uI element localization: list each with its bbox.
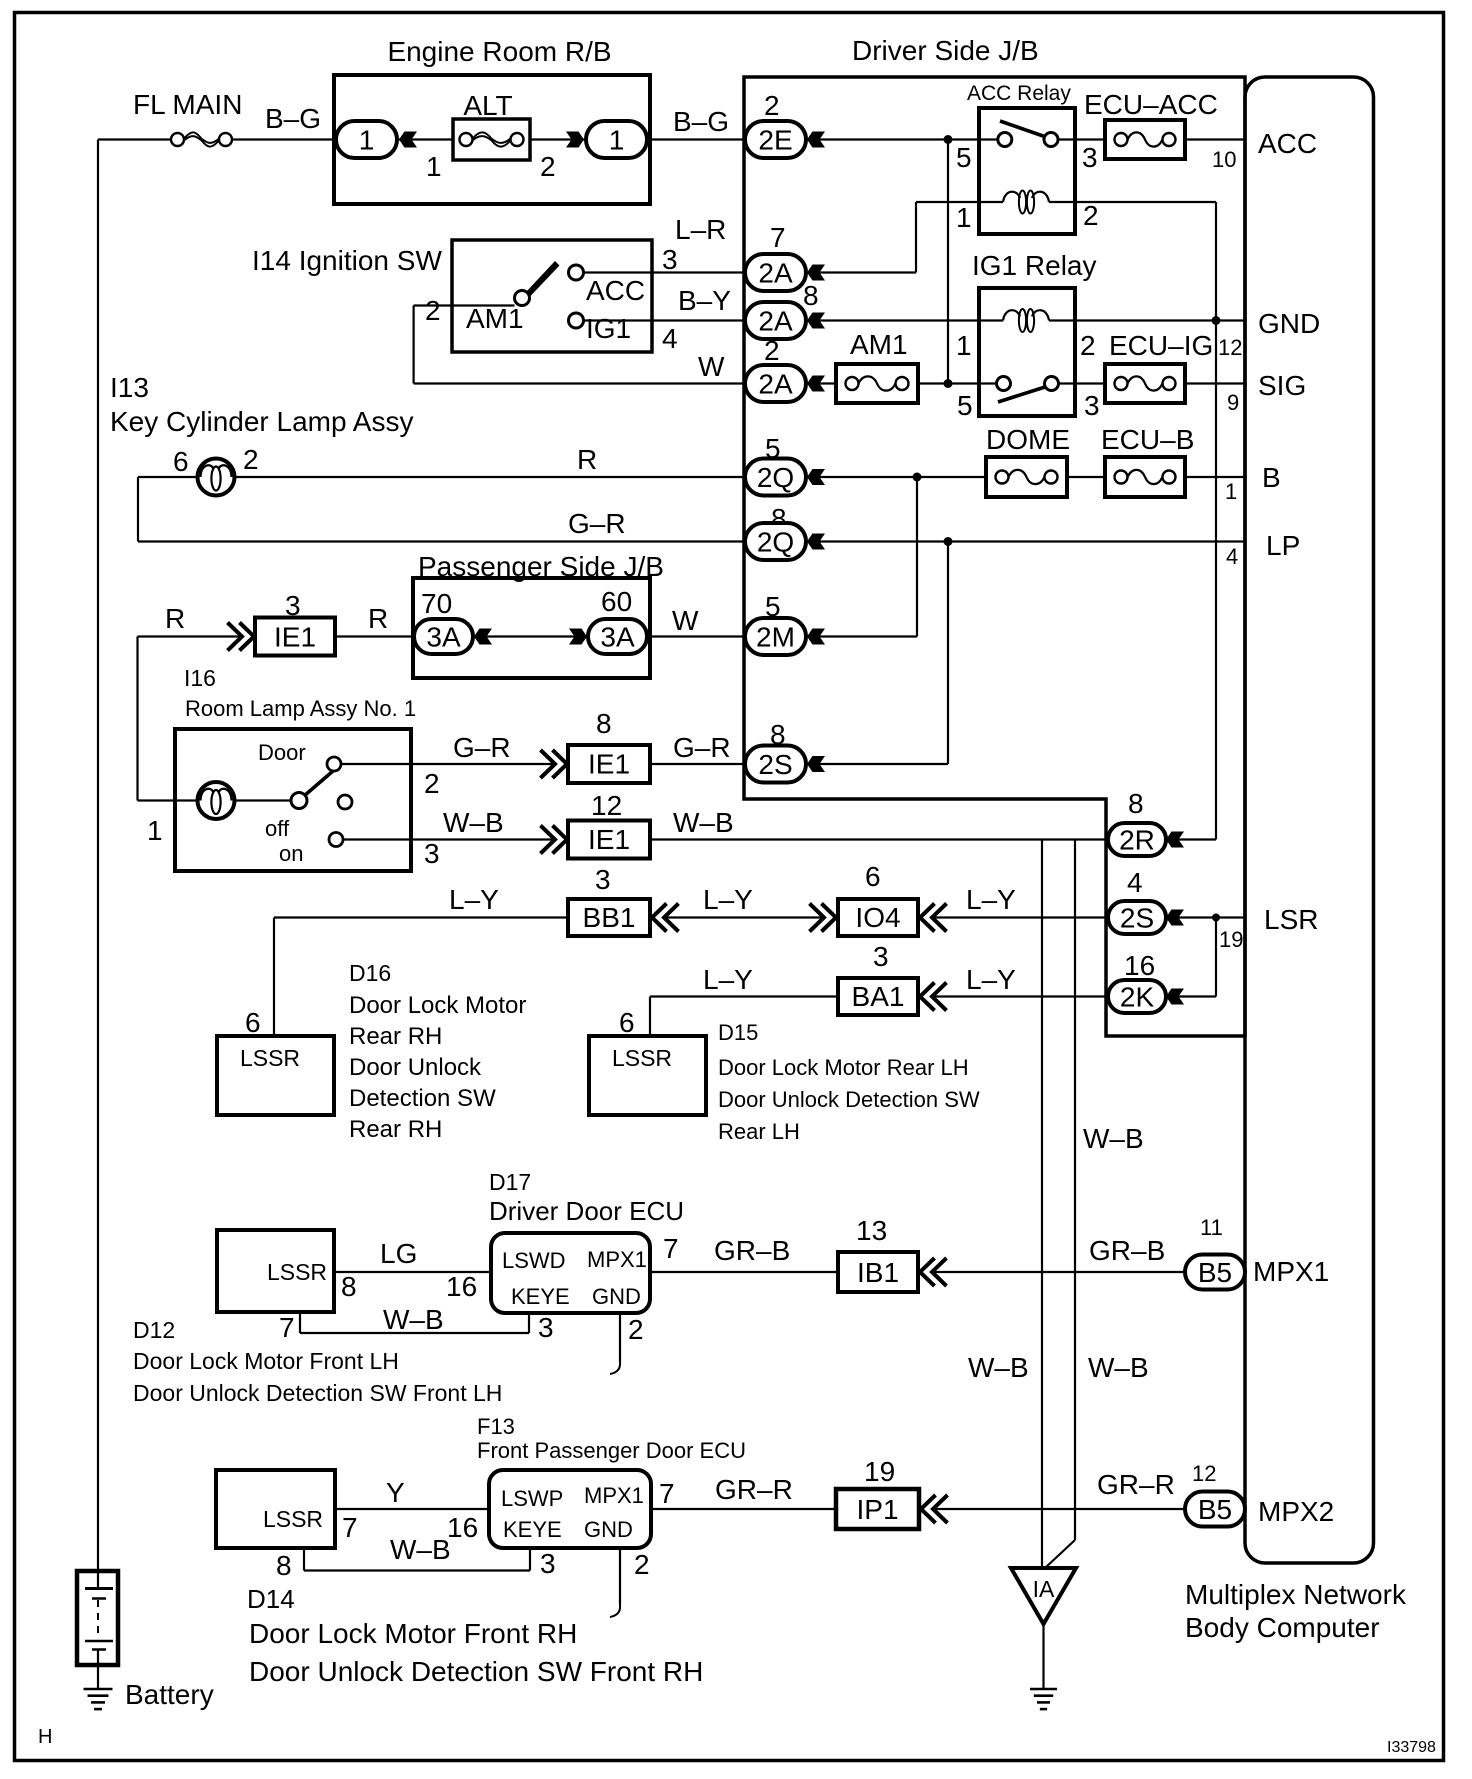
wire L-Y LSSR D16 to BB1 — [274, 918, 568, 1037]
svg-text:B: B — [1262, 462, 1281, 493]
wire door contact to pin2 — [341, 763, 411, 765]
svg-text:2M: 2M — [756, 622, 795, 653]
wire R key lamp to 2Q5 — [235, 476, 747, 478]
svg-text:Door Unlock: Door Unlock — [349, 1054, 482, 1081]
label D12 — [133, 1317, 175, 1343]
LSSR D16 box — [217, 1036, 334, 1115]
connector oval 2A pin7 — [745, 254, 806, 291]
wire IG1 contact to 2A pin8 — [584, 319, 747, 321]
label W-B D14 — [390, 1534, 451, 1565]
pin 3 label KEYE — [538, 1312, 554, 1343]
junction node on 2E wire — [944, 135, 953, 144]
connector oval 2S right column — [1108, 901, 1166, 934]
connector IE1 pin8 — [568, 745, 650, 783]
label Door Lock Motor Front LH — [133, 1348, 399, 1374]
label R wire left — [165, 603, 185, 634]
pin 2 label key lamp — [243, 444, 259, 475]
pin 7 label above 2A — [770, 222, 786, 253]
chevron out of IB1 — [920, 1258, 947, 1286]
connector IB1 — [838, 1252, 918, 1292]
label L-Y 5 — [966, 964, 1016, 995]
pin 10 label — [1212, 147, 1236, 172]
chevron out of BB1 — [652, 904, 679, 932]
svg-text:7: 7 — [342, 1512, 358, 1543]
svg-text:I33798: I33798 — [1387, 1739, 1436, 1756]
label D16 — [349, 960, 391, 986]
label B-G (right) — [673, 106, 729, 137]
svg-text:LSR: LSR — [1264, 904, 1318, 935]
svg-text:Rear LH: Rear LH — [718, 1119, 800, 1144]
passenger side J/B box — [413, 578, 650, 678]
svg-text:6: 6 — [245, 1007, 261, 1038]
svg-text:GR–B: GR–B — [1089, 1235, 1165, 1266]
svg-text:1: 1 — [359, 125, 375, 156]
wire IG1 relay to ECU-IG fuse — [1075, 382, 1105, 384]
svg-text:G–R: G–R — [673, 732, 731, 763]
svg-text:LP: LP — [1266, 530, 1300, 561]
connector oval 2A pin8 — [745, 302, 806, 339]
label D15 — [718, 1020, 758, 1045]
svg-text:KEYE: KEYE — [511, 1284, 570, 1309]
wire IE1 pin8 to 2S — [650, 763, 746, 765]
label Door — [258, 740, 306, 765]
svg-text:L–Y: L–Y — [966, 884, 1016, 915]
wire lamp pin1 — [138, 799, 198, 801]
LSSR D14 box — [216, 1470, 335, 1548]
connector IO4 — [838, 899, 918, 936]
pin 2 label GND D17 — [628, 1314, 644, 1345]
wire IB1 to B5 — [932, 1271, 1185, 1273]
svg-text:GR–B: GR–B — [714, 1235, 790, 1266]
label I33798 — [1387, 1739, 1436, 1756]
svg-text:LSWD: LSWD — [502, 1248, 566, 1273]
pin 3 label above BA1 — [873, 941, 889, 972]
svg-text:3: 3 — [540, 1548, 556, 1579]
svg-text:G–R: G–R — [568, 508, 626, 539]
label DOME — [986, 424, 1070, 455]
svg-text:B5: B5 — [1198, 1257, 1232, 1288]
wire junction down to 2S — [818, 542, 948, 765]
svg-text:2: 2 — [1083, 200, 1099, 231]
svg-text:DOME: DOME — [986, 424, 1070, 455]
svg-text:Door Lock Motor Front LH: Door Lock Motor Front LH — [133, 1348, 399, 1374]
junction node LSR — [1212, 914, 1220, 922]
svg-text:LSWP: LSWP — [501, 1486, 563, 1511]
svg-text:D17: D17 — [489, 1169, 531, 1195]
svg-text:1: 1 — [1225, 479, 1237, 504]
LSSR D15 box — [589, 1036, 706, 1115]
pin 5 label above 2M — [765, 591, 781, 622]
connector BB1 — [568, 899, 650, 936]
label Door Unlock Detection SW Front LH — [133, 1380, 502, 1406]
wire 2E to ACC relay pin5 — [818, 138, 979, 140]
svg-text:D15: D15 — [718, 1020, 758, 1045]
wire W-B LSSR D12 to KEYE — [300, 1312, 529, 1333]
label W-B D12 — [383, 1304, 444, 1335]
svg-text:W–B: W–B — [1083, 1123, 1144, 1154]
pin 2 label ALT — [540, 151, 556, 182]
label MPX2 pin — [1258, 1496, 1334, 1527]
svg-text:B–G: B–G — [265, 103, 321, 134]
svg-text:IE1: IE1 — [588, 824, 630, 855]
svg-text:Door: Door — [258, 740, 306, 765]
front passenger door ECU box — [489, 1470, 651, 1548]
svg-text:9: 9 — [1227, 390, 1239, 415]
label H — [38, 1726, 52, 1748]
label W-B bus right — [1088, 1352, 1149, 1383]
pin 3 label IG1 relay — [1084, 390, 1100, 421]
label IG1 terminal — [586, 313, 631, 344]
ACC relay switch — [979, 121, 1075, 147]
wire GR-B ECU to IB1 — [650, 1271, 838, 1273]
connector oval 2A pin2 — [745, 365, 806, 402]
label I13 — [110, 372, 149, 403]
svg-text:2: 2 — [634, 1549, 650, 1580]
svg-text:Driver Side J/B: Driver Side J/B — [852, 35, 1039, 66]
label MPX1 F13 — [584, 1483, 644, 1508]
label GND F13 — [584, 1517, 633, 1542]
pin 1 label ACC relay — [956, 202, 972, 233]
wire ALT to oval 1 right — [530, 138, 586, 140]
wire W 3A60 to 2M — [647, 635, 746, 637]
label G-R right — [673, 732, 731, 763]
svg-text:Key Cylinder Lamp Assy: Key Cylinder Lamp Assy — [110, 406, 413, 437]
wire LSR pin to 2S — [1178, 916, 1245, 918]
label B-Y — [678, 285, 731, 316]
label KEYE F13 — [503, 1517, 562, 1542]
wire ECU-B to B pin — [1185, 476, 1245, 478]
pin 6 label LSSR D16 — [245, 1007, 261, 1038]
svg-text:5: 5 — [957, 390, 973, 421]
svg-text:GR–R: GR–R — [715, 1474, 793, 1505]
wire IE1 to 3A70 — [335, 635, 414, 637]
label off — [265, 816, 290, 841]
svg-text:2R: 2R — [1119, 825, 1155, 856]
arrow into 2A pin7 — [807, 265, 825, 281]
wire Y LSSR to ECU — [335, 1508, 489, 1510]
label Door Lock Motor — [349, 992, 526, 1019]
label Passenger Side J/B — [418, 551, 664, 582]
label ECU-B — [1101, 424, 1194, 455]
svg-text:19: 19 — [1219, 927, 1243, 952]
svg-text:F13: F13 — [477, 1414, 515, 1439]
svg-text:G–R: G–R — [453, 732, 511, 763]
label W-B right — [673, 807, 734, 838]
label LG — [380, 1238, 417, 1269]
label W wire — [672, 605, 699, 636]
IG1 relay box — [979, 288, 1075, 416]
LSSR D12 box — [217, 1230, 334, 1312]
svg-text:Detection SW: Detection SW — [349, 1085, 496, 1112]
label ECU-ACC — [1084, 89, 1218, 120]
pin 5 label above 2Q — [765, 433, 781, 464]
svg-text:2: 2 — [628, 1314, 644, 1345]
svg-text:7: 7 — [770, 222, 786, 253]
label ACC Relay — [967, 82, 1071, 105]
connector BA1 — [838, 978, 918, 1015]
connector oval 3A pin70 — [414, 619, 473, 654]
label R wire — [577, 444, 597, 475]
pin 2 label above 2E — [764, 90, 780, 121]
pin 6 label key lamp — [173, 446, 189, 477]
label Y — [386, 1477, 405, 1508]
svg-text:Body Computer: Body Computer — [1185, 1612, 1380, 1643]
svg-text:GND: GND — [592, 1284, 641, 1309]
wire G-R room lamp to IE1 pin8 — [411, 763, 555, 765]
svg-text:6: 6 — [865, 861, 881, 892]
svg-text:ECU–ACC: ECU–ACC — [1084, 89, 1218, 120]
battery — [77, 1571, 118, 1689]
svg-text:AM1: AM1 — [850, 329, 908, 360]
svg-text:AM1: AM1 — [466, 303, 524, 334]
svg-text:L–Y: L–Y — [703, 964, 753, 995]
label Driver Side J/B — [852, 35, 1039, 66]
chevron into IE1 pin3 — [228, 623, 255, 651]
svg-text:3: 3 — [873, 941, 889, 972]
multiplex network body computer box — [1245, 77, 1374, 1563]
IG1 relay coil — [1003, 309, 1049, 332]
arrow into 2E — [807, 132, 825, 148]
label LP pin — [1266, 530, 1300, 561]
svg-text:IO4: IO4 — [855, 902, 900, 933]
junction node GND net — [1212, 316, 1221, 325]
IG1 relay switch — [979, 377, 1075, 403]
wire IG1 coil pin2 to GND pin — [1049, 319, 1245, 321]
pin 16 label above 2K — [1124, 950, 1155, 981]
label on — [279, 841, 303, 866]
svg-text:2: 2 — [424, 768, 440, 799]
label L-R — [675, 214, 726, 245]
arrow into 2S right column — [1166, 910, 1184, 926]
chevron into IO4 — [810, 904, 837, 932]
amplifier IA — [1011, 1568, 1076, 1624]
wire oval1 to ALT — [397, 138, 453, 140]
label B pin — [1262, 462, 1281, 493]
label Engine Room R/B — [387, 36, 611, 67]
pin 4 label — [1226, 544, 1238, 569]
svg-text:ACC: ACC — [1258, 128, 1317, 159]
arrow into 2Q pin8 — [807, 534, 825, 550]
svg-text:3: 3 — [662, 244, 678, 275]
svg-text:12: 12 — [1218, 335, 1242, 360]
connector oval 2Q pin5 — [745, 459, 806, 496]
wire DOME to ECU-B — [1067, 476, 1105, 478]
svg-text:Y: Y — [386, 1477, 405, 1508]
svg-text:Door Lock Motor Front RH: Door Lock Motor Front RH — [249, 1618, 577, 1649]
svg-text:LSSR: LSSR — [612, 1045, 672, 1071]
pin 19 label above IP1 — [864, 1456, 895, 1487]
svg-text:LSSR: LSSR — [240, 1045, 300, 1071]
svg-text:W: W — [698, 351, 725, 382]
svg-text:Door Lock Motor: Door Lock Motor — [349, 992, 526, 1019]
wire IA to ground — [1042, 1624, 1044, 1689]
pin 1 label ALT — [426, 151, 442, 182]
svg-text:16: 16 — [447, 1512, 478, 1543]
svg-text:Room Lamp Assy No. 1: Room Lamp Assy No. 1 — [185, 696, 416, 721]
wire battery feed vertical — [97, 140, 99, 1572]
pin 8 label LSSR D12 — [341, 1271, 357, 1302]
svg-text:1: 1 — [956, 330, 972, 361]
arrow into 2K — [1166, 989, 1184, 1005]
pin 2 label ACC relay — [1083, 200, 1099, 231]
svg-text:11: 11 — [1200, 1215, 1223, 1240]
pin 12 label above B5 MPX2 — [1192, 1461, 1216, 1486]
wire junction to SIG junction vertical — [947, 140, 949, 384]
svg-text:W–B: W–B — [1088, 1352, 1149, 1383]
ignition switch lever — [526, 261, 560, 297]
label I16 — [184, 665, 216, 691]
svg-text:7: 7 — [659, 1478, 675, 1509]
arrow into 3A70 — [474, 629, 492, 645]
fuse ECU-IG — [1105, 364, 1185, 403]
svg-text:D12: D12 — [133, 1317, 175, 1343]
pin 2 label room lamp — [424, 768, 440, 799]
label Rear RH 2 — [349, 1116, 442, 1143]
pin 12 label — [1218, 335, 1242, 360]
wire riser to 2M — [916, 477, 918, 637]
svg-text:2: 2 — [1080, 330, 1096, 361]
connector oval B5 MPX1 — [1185, 1255, 1245, 1290]
wire ACC coil pin2 to GND net — [1075, 202, 1216, 840]
svg-text:16: 16 — [1124, 950, 1155, 981]
label GR-B right — [1089, 1235, 1165, 1266]
svg-text:Engine Room R/B: Engine Room R/B — [387, 36, 611, 67]
wire GND pin D17 — [610, 1313, 620, 1374]
svg-text:1: 1 — [426, 151, 442, 182]
pin 2 label ignition — [425, 295, 441, 326]
svg-text:L–R: L–R — [675, 214, 726, 245]
svg-text:2A: 2A — [758, 369, 793, 400]
wire W-B LSSR D14 to KEYE — [304, 1548, 530, 1571]
svg-text:12: 12 — [1192, 1461, 1216, 1486]
key cylinder lamp bulb — [198, 459, 235, 496]
label L-Y 1 — [449, 884, 499, 915]
wire key lamp pin6 loop — [138, 477, 746, 542]
svg-text:19: 19 — [864, 1456, 895, 1487]
connector oval 2Q pin8 — [745, 523, 806, 560]
connector oval 2S — [745, 746, 806, 783]
svg-text:2Q: 2Q — [757, 527, 794, 558]
label AM1 fuse — [850, 329, 908, 360]
label MPX1 pin — [1253, 1256, 1329, 1287]
svg-text:R: R — [165, 603, 185, 634]
ignition switch common contact — [515, 291, 530, 306]
svg-text:6: 6 — [173, 446, 189, 477]
wire riser to 2A pin7 wire — [915, 202, 917, 273]
label W — [698, 351, 725, 382]
svg-text:W–B: W–B — [383, 1304, 444, 1335]
room lamp box — [175, 729, 411, 871]
svg-text:IB1: IB1 — [857, 1257, 899, 1288]
wire ignition AM1 to W wire — [414, 306, 515, 384]
pin 3 label ignition — [662, 244, 678, 275]
connector IE1 pin12 — [568, 821, 650, 859]
label W-B bus upper — [1083, 1123, 1144, 1154]
svg-text:SIG: SIG — [1258, 370, 1306, 401]
connector oval 2K — [1108, 980, 1166, 1013]
svg-text:3: 3 — [595, 864, 611, 895]
room lamp switch lever — [304, 768, 337, 797]
svg-text:ECU–B: ECU–B — [1101, 424, 1194, 455]
wire 2A pin7 to ACC coil riser — [818, 271, 916, 273]
svg-text:2A: 2A — [758, 306, 793, 337]
svg-text:8: 8 — [276, 1550, 292, 1581]
arrow into 2M — [807, 629, 825, 645]
engine room R/B box — [334, 75, 650, 204]
label IG1 Relay — [972, 250, 1097, 281]
wire B-G to driver J/B — [650, 138, 746, 140]
svg-text:IG1 Relay: IG1 Relay — [972, 250, 1097, 281]
room lamp on contact — [329, 833, 343, 847]
label ECU-IG — [1109, 330, 1213, 361]
svg-text:KEYE: KEYE — [503, 1517, 562, 1542]
svg-text:60: 60 — [601, 586, 632, 617]
svg-text:4: 4 — [662, 323, 678, 354]
svg-text:Door Lock Motor Rear LH: Door Lock Motor Rear LH — [718, 1055, 969, 1080]
wire LSSR D15 to BA1 — [650, 997, 838, 1037]
svg-text:4: 4 — [1226, 544, 1238, 569]
wire W-B room lamp to IE1 pin12 — [411, 838, 555, 840]
svg-text:IE1: IE1 — [274, 622, 316, 653]
label FL MAIN — [133, 89, 242, 120]
svg-text:2: 2 — [425, 295, 441, 326]
wire R room lamp to IE1 — [138, 637, 243, 801]
pin 1 label IG1 relay — [956, 330, 972, 361]
svg-text:Front Passenger Door ECU: Front Passenger Door ECU — [477, 1438, 746, 1463]
label MPX1 D17 — [587, 1247, 647, 1272]
svg-text:8: 8 — [341, 1271, 357, 1302]
label Door Lock Motor Rear LH — [718, 1055, 969, 1080]
wire GND pin F13 — [610, 1548, 620, 1617]
connector IE1 pin3 — [255, 618, 335, 656]
svg-text:8: 8 — [1128, 788, 1144, 819]
room lamp off contact — [338, 795, 352, 809]
connector oval 2E — [745, 121, 806, 158]
svg-text:B5: B5 — [1198, 1494, 1232, 1525]
wire IP1 to B5 MPX2 — [933, 1508, 1185, 1510]
svg-text:B–Y: B–Y — [678, 285, 731, 316]
fusible link ALT — [453, 119, 530, 160]
svg-text:Multiplex Network: Multiplex Network — [1185, 1579, 1407, 1610]
ACC relay box — [979, 108, 1075, 234]
label B-G (left) — [265, 103, 321, 134]
svg-text:Door Unlock Detection SW: Door Unlock Detection SW — [718, 1087, 980, 1112]
svg-text:7: 7 — [279, 1312, 295, 1343]
svg-text:BB1: BB1 — [583, 902, 636, 933]
svg-text:W–B: W–B — [673, 807, 734, 838]
pin 4 label below 2R — [1127, 867, 1143, 898]
wire IO4 to 2S — [932, 916, 1108, 918]
label LSWD — [502, 1248, 566, 1273]
chevron into IE1 pin12 — [541, 826, 568, 854]
svg-text:2S: 2S — [1120, 903, 1154, 934]
label L-Y 4 — [703, 964, 753, 995]
chevron into IE1 pin8 — [541, 750, 568, 778]
connector IP1 — [836, 1489, 919, 1529]
svg-text:R: R — [577, 444, 597, 475]
wire BA1 to 2K — [932, 995, 1108, 997]
label Door Lock Motor Front RH — [249, 1618, 577, 1649]
label Body Computer — [1185, 1612, 1380, 1643]
svg-text:13: 13 — [856, 1215, 887, 1246]
label W-B left — [443, 807, 504, 838]
arrow into 2Q pin5 — [807, 469, 825, 485]
room lamp bulb — [198, 782, 235, 819]
pin 3 label above BB1 — [595, 864, 611, 895]
svg-text:3: 3 — [424, 838, 440, 869]
svg-text:W–B: W–B — [968, 1352, 1029, 1383]
svg-text:GR–R: GR–R — [1097, 1469, 1175, 1500]
